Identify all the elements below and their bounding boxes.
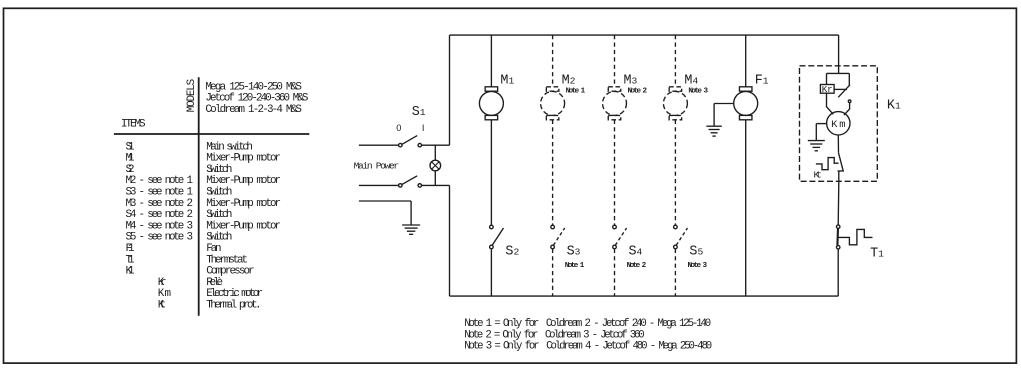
wire Kr contact to Km motor right terminal: [844, 103, 850, 116]
top supply bus: [450, 34, 839, 36]
wire from switch S4 to bottom bus: [614, 249, 616, 296]
Kr contact arm: [838, 85, 850, 98]
svg-text:S4: S4: [629, 245, 643, 260]
svg-text:Jetcof 120-240-360 M&S: Jetcof 120-240-360 M&S: [205, 93, 308, 105]
svg-text:Main Power: Main Power: [354, 160, 400, 171]
motor F1 upper terminal block: [739, 87, 752, 91]
S1 pole 1 left contact: [399, 143, 403, 147]
S1 pole 1 feed wire: [359, 144, 399, 146]
motor M4 body: [663, 91, 687, 115]
switch S5 arm: [676, 228, 687, 245]
wire from T1 to bottom bus: [837, 249, 839, 296]
svg-text:S3: S3: [567, 245, 581, 260]
motor M4 lower terminal block: [669, 115, 682, 119]
switch S4 arm: [615, 228, 626, 245]
svg-text:S1: S1: [126, 141, 135, 153]
lamp cross stroke 1: [432, 162, 440, 170]
pilot lamp branch lower wire: [434, 171, 436, 186]
protective earth feed wire: [359, 200, 411, 202]
main power earth symbol: [402, 201, 420, 234]
svg-text:S2: S2: [505, 245, 519, 260]
svg-text:M4 - see note 3: M4 - see note 3: [126, 220, 194, 232]
motor M4 branch wire from top bus: [674, 35, 676, 87]
svg-text:T1: T1: [870, 246, 884, 261]
switch S5 lower contact: [674, 245, 678, 249]
switch S4 upper contact: [613, 225, 617, 229]
wire from top bus to K1: [838, 35, 840, 73]
switch S2 upper contact: [490, 225, 494, 229]
svg-text:Note 3: Note 3: [688, 87, 708, 95]
svg-text:Main switch: Main switch: [206, 141, 253, 153]
svg-text:I: I: [422, 123, 425, 133]
fan F1 earth symbol: [706, 104, 721, 137]
svg-text:M4: M4: [684, 74, 698, 89]
wire from motor to switch S5: [674, 120, 676, 225]
bottom return bus: [450, 295, 839, 297]
svg-text:Mixer-Pump motor: Mixer-Pump motor: [206, 198, 281, 210]
S1 pole 2 right contact: [418, 184, 422, 188]
Kr contact fixed terminal: [834, 88, 847, 90]
svg-text:F1: F1: [126, 243, 135, 255]
svg-text:S4 - see note 2: S4 - see note 2: [126, 209, 194, 221]
motor M4 upper terminal block: [669, 87, 682, 91]
svg-text:Fan: Fan: [206, 243, 221, 255]
motor M2 branch wire from top bus: [552, 35, 554, 87]
thermal protector Kt heater element: [816, 158, 839, 170]
lamp cross stroke 2: [432, 162, 440, 170]
svg-text:S5 - see note 3: S5 - see note 3: [126, 232, 194, 244]
wire leaving thermal contact: [838, 171, 840, 182]
S1 pole 2 feed wire: [359, 184, 399, 186]
motor M3 lower terminal block: [608, 115, 621, 119]
thermostat T1 upper contact: [836, 225, 840, 229]
thermal protector contact arm: [839, 153, 844, 171]
svg-text:Switch: Switch: [206, 187, 232, 199]
wire from switch S3 to bottom bus: [552, 249, 554, 296]
svg-text:Note 3: Note 3: [688, 262, 708, 270]
svg-text:F1: F1: [755, 74, 769, 89]
motor M3 upper terminal block: [608, 87, 621, 91]
wire from switch S5 to bottom bus: [674, 249, 676, 296]
svg-text:Kt: Kt: [158, 300, 166, 312]
svg-text:M3 - see note 2: M3 - see note 2: [126, 198, 194, 210]
svg-text:Coldream 1-2-3-4 M&S: Coldream 1-2-3-4 M&S: [205, 104, 302, 116]
svg-text:Note 1: Note 1: [565, 262, 585, 270]
left rail upper segment: [449, 35, 451, 145]
left rail lower segment: [449, 185, 451, 296]
svg-text:Note 2: Note 2: [627, 262, 647, 270]
S1 pole 2 arm: [402, 176, 417, 185]
svg-text:Note 1 = Only for Coldream 2: Note 1 = Only for Coldream 2 - Jetcof 24…: [464, 318, 711, 330]
svg-text:S5: S5: [689, 245, 703, 260]
drop to Kr contact: [848, 73, 850, 85]
svg-text:T1: T1: [126, 254, 135, 266]
motor M2 lower terminal block: [546, 115, 559, 119]
svg-text:Kt: Kt: [814, 170, 822, 181]
switch S2 arm: [492, 228, 503, 245]
svg-text:K1: K1: [887, 98, 901, 113]
svg-text:M2 - see note 1: M2 - see note 1: [126, 175, 194, 187]
svg-text:M3: M3: [624, 74, 638, 89]
svg-text:MODELS: MODELS: [186, 79, 198, 112]
wire from motor to switch S4: [614, 120, 616, 225]
wire Kr coil to Km motor left terminal: [827, 93, 834, 114]
svg-text:Note 3 = Only for Coldream 4: Note 3 = Only for Coldream 4 - Jetcof 48…: [464, 341, 712, 353]
wire from switch S2 to bottom bus: [490, 249, 492, 296]
legend table divider vertical line: [198, 77, 200, 315]
motor M1 branch wire from top bus: [490, 35, 492, 87]
S1 pole 1 output wire: [421, 144, 449, 146]
switch S4 lower contact: [613, 245, 617, 249]
fan F1 earth tap wire: [714, 103, 734, 105]
svg-text:Note 2 = Only for Coldream 3: Note 2 = Only for Coldream 3 - Jetcof 36…: [464, 329, 645, 341]
svg-text:Kr: Kr: [822, 84, 833, 95]
svg-text:Mixer-Pump motor: Mixer-Pump motor: [206, 153, 281, 165]
svg-text:Thermal prot.: Thermal prot.: [206, 300, 262, 312]
svg-text:Compressor: Compressor: [206, 266, 255, 278]
svg-text:Thermstat: Thermstat: [206, 254, 248, 266]
svg-text:Mixer-Pump motor: Mixer-Pump motor: [206, 220, 281, 232]
motor M1 lower terminal block: [485, 115, 498, 119]
motor F1 branch wire from top bus: [745, 35, 747, 87]
svg-text:Km: Km: [158, 288, 171, 300]
svg-text:M2: M2: [562, 74, 576, 89]
motor F1 lower terminal block: [739, 115, 752, 119]
wire from motor to switch S3: [552, 120, 554, 225]
compressor K1 dashed enclosure: [800, 66, 878, 182]
motor M1 body: [479, 91, 503, 115]
svg-text:Note 1: Note 1: [566, 87, 586, 95]
wire from K1 box to thermostat T1: [837, 182, 840, 225]
motor M2 body: [541, 91, 565, 115]
svg-text:Switch: Switch: [206, 209, 232, 221]
Kr contact lower terminal: [848, 100, 851, 103]
svg-text:ITEMS: ITEMS: [121, 119, 146, 131]
svg-text:Relè: Relè: [206, 277, 223, 289]
svg-text:S1: S1: [412, 105, 426, 120]
svg-text:Mega 125-140-250 M&S: Mega 125-140-250 M&S: [205, 81, 302, 93]
S1 pole 1 right contact: [418, 143, 422, 147]
svg-text:Mixer-Pump motor: Mixer-Pump motor: [206, 175, 281, 187]
motor M3 body: [603, 91, 627, 115]
pilot lamp: [430, 160, 441, 171]
wire from Km to thermal contact: [837, 135, 839, 153]
motor M2 upper terminal block: [546, 87, 559, 91]
svg-text:0: 0: [396, 123, 401, 133]
motor M3 branch wire from top bus: [614, 35, 616, 87]
S1 pole 1 arm: [402, 136, 417, 145]
svg-text:S2: S2: [126, 164, 135, 176]
svg-text:Km: Km: [831, 119, 845, 131]
switch S2 lower contact: [490, 245, 494, 249]
svg-text:Note 2: Note 2: [628, 87, 648, 95]
K1 internal top bar: [827, 72, 850, 74]
svg-text:S3 - see note 1: S3 - see note 1: [126, 187, 194, 199]
switch S3 lower contact: [551, 245, 555, 249]
switch S3 arm: [553, 228, 564, 245]
thermostat T1 sensing element: [838, 229, 872, 244]
motor M1 upper terminal block: [485, 87, 498, 91]
svg-text:Kr: Kr: [158, 277, 167, 289]
S1 pole 2 left contact: [399, 184, 403, 188]
relay Kr coil box: [820, 85, 834, 94]
svg-text:Electric motor: Electric motor: [206, 288, 263, 300]
svg-text:Switch: Switch: [206, 164, 232, 176]
Km earth symbol: [808, 124, 825, 151]
motor F1 body: [734, 91, 758, 115]
svg-text:M1: M1: [126, 153, 135, 165]
drop to relay Kr coil: [826, 73, 828, 84]
S1 pole 2 output wire: [421, 184, 449, 186]
switch S5 upper contact: [674, 225, 678, 229]
Km earth tap wire: [816, 123, 826, 125]
pilot lamp branch upper wire: [434, 145, 436, 160]
svg-text:K1: K1: [126, 266, 135, 278]
switch S3 upper contact: [551, 225, 555, 229]
svg-text:Switch: Switch: [206, 232, 232, 244]
fan F1 wire to bottom bus: [745, 120, 747, 296]
wire from motor to switch S2: [490, 120, 492, 225]
thermostat T1 lower contact: [836, 246, 840, 250]
electric motor Km body: [827, 112, 850, 135]
thermostat T1 arm: [836, 228, 839, 245]
legend table divider horizontal line: [114, 133, 309, 135]
thermal contact seat: [838, 170, 844, 172]
svg-text:M1: M1: [500, 74, 514, 89]
